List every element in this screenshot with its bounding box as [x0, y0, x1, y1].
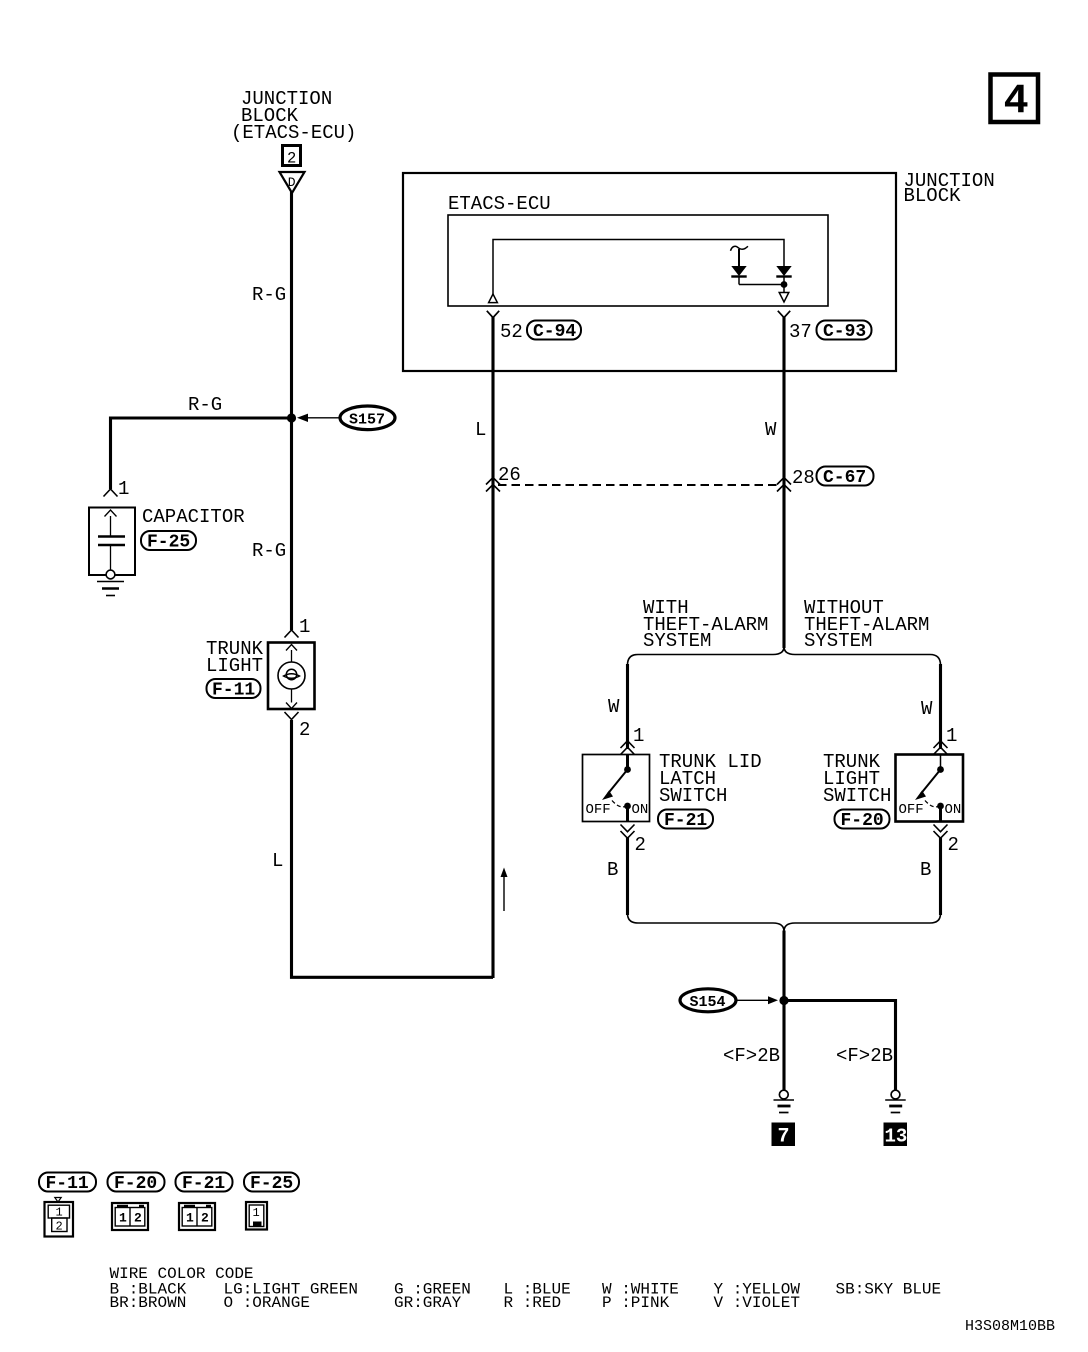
- pin 2 right switch: [934, 825, 959, 857]
- tag F-20 bottom: [108, 1173, 165, 1195]
- svg-text:D: D: [288, 175, 296, 190]
- svg-text:26: 26: [498, 464, 521, 486]
- svg-text:BR:BROWN: BR:BROWN: [110, 1294, 187, 1312]
- connector icon F-11: [45, 1198, 74, 1237]
- svg-text:W: W: [921, 698, 933, 720]
- svg-text:B: B: [920, 859, 931, 881]
- tag F-21: [658, 810, 713, 832]
- svg-text:1: 1: [186, 1211, 194, 1226]
- svg-text:F-21: F-21: [182, 1174, 225, 1194]
- svg-text:1: 1: [119, 1211, 127, 1226]
- internal wire run: [493, 240, 784, 295]
- svg-text:C-93: C-93: [823, 322, 866, 342]
- page number box 4: [991, 75, 1039, 126]
- svg-text:52: 52: [500, 321, 523, 343]
- capacitor pin chevron: [104, 489, 118, 497]
- dashed link 26-28: [498, 484, 778, 486]
- svg-text:1: 1: [633, 725, 644, 747]
- svg-text:S157: S157: [349, 412, 385, 429]
- connector icon F-25: [246, 1202, 267, 1230]
- svg-text:37: 37: [789, 321, 812, 343]
- label JUNCTION BLOCK (ETACS-ECU): [231, 88, 356, 144]
- wire L from trunk light to bottom corner: [292, 720, 494, 977]
- svg-text:2: 2: [948, 834, 959, 856]
- svg-text:2: 2: [56, 1220, 63, 1234]
- page ref 7: [772, 1123, 796, 1149]
- svg-text:2: 2: [299, 719, 310, 741]
- svg-text:OFF: OFF: [586, 802, 611, 818]
- svg-text:(ETACS-ECU): (ETACS-ECU): [231, 122, 356, 144]
- connector box 2: [283, 146, 301, 168]
- squiggle over diode D1: [731, 246, 749, 251]
- svg-text:<F>2B: <F>2B: [836, 1045, 893, 1067]
- svg-text:F-21: F-21: [664, 811, 707, 831]
- svg-text:28: 28: [792, 467, 815, 489]
- svg-text:H3S08M10BB: H3S08M10BB: [965, 1318, 1055, 1335]
- wire L from pin 52 down: [491, 317, 494, 978]
- ground 7: [774, 1090, 795, 1112]
- splice callout S157: [297, 406, 395, 430]
- tag C-94: [527, 321, 581, 343]
- tag F-25 bottom: [244, 1173, 299, 1195]
- tag F-11: [207, 679, 261, 701]
- diode D1: [731, 249, 746, 285]
- connector icon F-21: [179, 1203, 215, 1230]
- pin 1 left switch: [621, 725, 645, 755]
- svg-text:SYSTEM: SYSTEM: [804, 630, 872, 652]
- svg-text:SYSTEM: SYSTEM: [643, 630, 711, 652]
- svg-text:2: 2: [287, 150, 296, 168]
- wire B left branch: [626, 838, 629, 915]
- node dot at D2 output: [781, 281, 788, 288]
- wire branch to ground 13: [784, 1001, 896, 1091]
- trunk light pin 1: [285, 616, 311, 638]
- svg-text:13: 13: [885, 1126, 908, 1148]
- wire B to ground 7: [782, 931, 785, 1091]
- svg-text:7: 7: [778, 1126, 790, 1149]
- svg-text:C-94: C-94: [533, 322, 576, 342]
- svg-text:LIGHT: LIGHT: [206, 655, 263, 677]
- svg-text:C-67: C-67: [823, 468, 866, 488]
- internal output triangle (pin 37 side): [779, 293, 789, 303]
- pin 1 right switch: [934, 725, 958, 755]
- node S157 junction dot: [287, 413, 296, 422]
- svg-text:ON: ON: [632, 802, 649, 818]
- svg-text:W: W: [608, 696, 620, 718]
- svg-text:CAPACITOR: CAPACITOR: [142, 506, 245, 528]
- capacitor C box F-25: [89, 508, 135, 579]
- pin 52 connector Y: [487, 311, 523, 343]
- connector icon F-20: [112, 1203, 148, 1230]
- pin 37 connector Y: [778, 311, 812, 343]
- wire R-G branch to capacitor: [111, 418, 292, 489]
- svg-text:F-20: F-20: [114, 1174, 157, 1194]
- legend WIRE COLOR CODE: [110, 1265, 942, 1312]
- svg-text:OFF: OFF: [899, 802, 924, 818]
- svg-text:B: B: [607, 859, 618, 881]
- svg-text:F-20: F-20: [841, 811, 884, 831]
- svg-text:R-G: R-G: [252, 284, 286, 306]
- wire B right branch: [939, 838, 942, 915]
- svg-text:<F>2B: <F>2B: [723, 1045, 780, 1067]
- label WITH THEFT-ALARM SYSTEM: [643, 597, 768, 652]
- ground under capacitor: [97, 582, 124, 596]
- svg-text:P :PINK: P :PINK: [602, 1294, 670, 1312]
- svg-text:F-11: F-11: [46, 1174, 89, 1194]
- label TRUNK LID LATCH SWITCH: [659, 751, 762, 807]
- tag F-20: [835, 810, 890, 832]
- inline connector 26 marker: [486, 464, 521, 492]
- svg-text:BLOCK: BLOCK: [904, 185, 962, 207]
- label WITHOUT THEFT-ALARM SYSTEM: [804, 597, 929, 652]
- svg-text:4: 4: [1004, 78, 1029, 126]
- trunk light pin 2: [285, 712, 311, 741]
- svg-text:SWITCH: SWITCH: [659, 785, 727, 807]
- svg-text:F-25: F-25: [250, 1174, 293, 1194]
- svg-text:2: 2: [635, 834, 646, 856]
- direction arrow on wire L: [501, 868, 508, 912]
- trunk light L box F-11: [268, 643, 315, 710]
- svg-text:L: L: [272, 850, 283, 872]
- tag F-21 bottom: [176, 1173, 233, 1195]
- wire W right branch: [939, 664, 942, 749]
- svg-text:R :RED: R :RED: [504, 1294, 562, 1312]
- tag F-25: [141, 531, 196, 553]
- tag C-67: [817, 467, 874, 489]
- splice callout S154: [680, 989, 778, 1012]
- pin 2 left switch: [621, 825, 646, 857]
- svg-text:L: L: [475, 419, 486, 441]
- svg-text:1: 1: [946, 725, 957, 747]
- ETACS-ECU inner box: [448, 215, 828, 306]
- svg-text:O :ORANGE: O :ORANGE: [224, 1294, 310, 1312]
- pin D triangle: [280, 172, 305, 193]
- svg-text:SB:SKY BLUE: SB:SKY BLUE: [836, 1281, 942, 1299]
- tag C-93: [817, 321, 872, 343]
- svg-text:ON: ON: [945, 802, 962, 818]
- label TRUNK LIGHT SWITCH: [823, 751, 891, 807]
- svg-text:F-25: F-25: [147, 533, 190, 553]
- svg-text:SWITCH: SWITCH: [823, 785, 891, 807]
- tag F-11 bottom: [39, 1173, 96, 1195]
- svg-text:GR:GRAY: GR:GRAY: [394, 1294, 462, 1312]
- svg-text:S154: S154: [690, 994, 726, 1011]
- internal output triangle (pin 52 side): [489, 294, 498, 303]
- junction block outer box: [403, 173, 896, 371]
- svg-text:ETACS-ECU: ETACS-ECU: [448, 193, 551, 215]
- inline connector 28 marker: [777, 467, 815, 492]
- svg-text:W: W: [765, 419, 777, 441]
- label TRUNK LIGHT: [206, 638, 264, 677]
- diode D2: [776, 266, 791, 293]
- brace split top: [628, 647, 941, 666]
- wire W left branch: [626, 664, 629, 749]
- wire W from pin 37 down: [782, 317, 785, 648]
- trunk lid latch switch box F-21: [583, 755, 650, 823]
- page ref 13: [884, 1123, 908, 1148]
- wire R-G from D to S157 node: [290, 192, 293, 418]
- svg-text:1: 1: [118, 478, 129, 500]
- label JUNCTION BLOCK right: [904, 170, 995, 207]
- svg-text:R-G: R-G: [188, 394, 222, 416]
- svg-text:1: 1: [299, 616, 310, 638]
- svg-text:R-G: R-G: [252, 540, 286, 562]
- svg-text:1: 1: [253, 1206, 260, 1220]
- svg-text:V :VIOLET: V :VIOLET: [714, 1294, 800, 1312]
- brace merge bottom: [628, 914, 941, 932]
- wire D1 cathode to D2: [739, 284, 784, 286]
- svg-text:2: 2: [201, 1211, 209, 1226]
- svg-text:2: 2: [134, 1211, 142, 1226]
- wire R-G from S157 node to trunk light: [290, 418, 293, 630]
- trunk light switch box F-20: [896, 755, 964, 823]
- ground 13: [885, 1090, 906, 1112]
- svg-text:F-11: F-11: [212, 681, 255, 701]
- node S154 junction dot: [779, 996, 788, 1005]
